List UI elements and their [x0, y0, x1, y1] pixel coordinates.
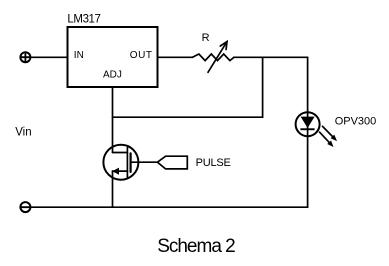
svg-text:IN: IN — [74, 50, 84, 61]
svg-text:PULSE: PULSE — [196, 157, 231, 169]
svg-text:OPV300: OPV300 — [335, 116, 377, 128]
svg-text:LM317: LM317 — [67, 14, 100, 26]
svg-text:R: R — [202, 32, 210, 44]
svg-text:ADJ: ADJ — [103, 70, 122, 81]
svg-text:Vin: Vin — [15, 127, 31, 139]
svg-text:Schema 2: Schema 2 — [157, 236, 235, 257]
svg-text:OUT: OUT — [130, 50, 153, 61]
